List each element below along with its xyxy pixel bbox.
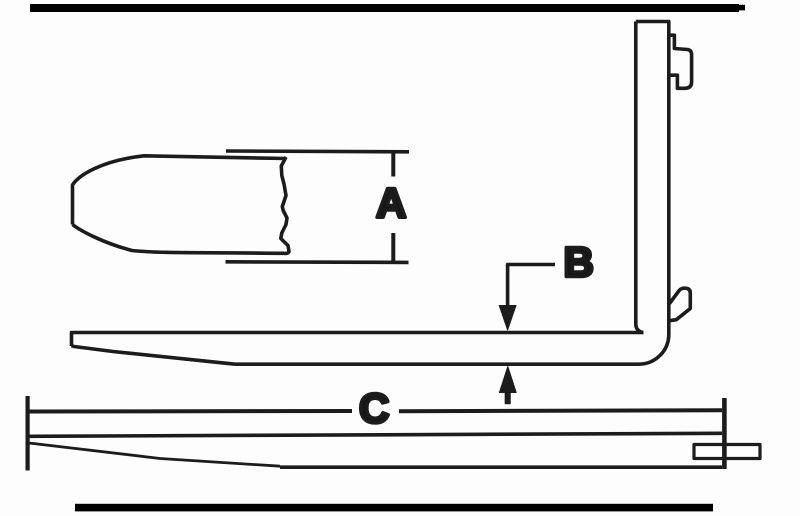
svg-text:B: B <box>564 239 594 286</box>
svg-text:A: A <box>376 180 406 227</box>
svg-text:C: C <box>359 385 389 432</box>
